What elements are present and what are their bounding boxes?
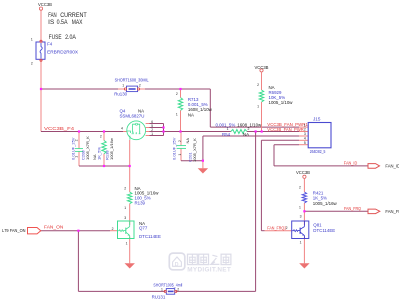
svg-text:5: 5	[304, 141, 306, 145]
svg-text:FAN_FR: FAN_FR	[385, 209, 399, 214]
svg-text:IS: IS	[48, 20, 54, 26]
svg-text:MAX: MAX	[72, 20, 83, 26]
svg-text:2: 2	[299, 185, 301, 189]
svg-text:3: 3	[124, 216, 126, 220]
svg-text:2: 2	[247, 127, 249, 131]
svg-text:VCC3B: VCC3B	[255, 65, 269, 70]
svg-text:R54: R54	[222, 132, 231, 137]
svg-text:VCC3B_FAN_PWR: VCC3B_FAN_PWR	[267, 127, 304, 132]
svg-text:FAN_FRQ: FAN_FRQ	[344, 206, 361, 211]
svg-text:MYDIGIT.NET: MYDIGIT.NET	[187, 267, 231, 274]
svg-text:J15: J15	[313, 117, 321, 122]
svg-text:ERBRD2R00X: ERBRD2R00X	[47, 49, 78, 54]
svg-text:SSML6827U: SSML6827U	[120, 114, 145, 119]
svg-text:1005_1/16w: 1005_1/16w	[313, 201, 338, 206]
svg-text:F4: F4	[47, 42, 53, 47]
svg-text:CURRENT: CURRENT	[60, 13, 87, 19]
svg-text:R421: R421	[313, 190, 324, 195]
svg-text:1K_5%: 1K_5%	[313, 196, 327, 201]
svg-text:1: 1	[151, 132, 153, 136]
svg-text:1005_X7R_K: 1005_X7R_K	[192, 138, 197, 162]
svg-text:1: 1	[74, 156, 78, 158]
svg-text:R139: R139	[135, 201, 146, 206]
svg-text:2: 2	[176, 92, 178, 96]
svg-text:2: 2	[124, 186, 126, 190]
svg-text:1K_5%: 1K_5%	[97, 147, 102, 160]
svg-text:FAN_ID: FAN_ID	[344, 161, 358, 166]
svg-text:1: 1	[122, 84, 124, 88]
svg-text:SHORT1608_30MIL: SHORT1608_30MIL	[115, 77, 149, 82]
svg-text:RU131: RU131	[152, 295, 166, 300]
svg-text:NA: NA	[188, 112, 194, 117]
svg-text:2: 2	[139, 84, 141, 88]
svg-text:FAN: FAN	[48, 13, 56, 19]
svg-text:1005_1/10w: 1005_1/10w	[269, 100, 294, 105]
svg-text:D: D	[175, 262, 179, 268]
svg-text:1: 1	[257, 105, 259, 109]
svg-text:1005_1/16w: 1005_1/16w	[109, 138, 114, 160]
svg-text:1: 1	[304, 123, 306, 127]
svg-text:DTC114EE: DTC114EE	[139, 234, 161, 239]
svg-text:4: 4	[121, 127, 123, 131]
svg-text:1: 1	[31, 37, 33, 41]
svg-text:VCC3B: VCC3B	[296, 170, 310, 175]
svg-text:1: 1	[124, 206, 126, 210]
svg-text:2: 2	[178, 140, 182, 142]
svg-text:1608_1/10w: 1608_1/10w	[237, 122, 262, 127]
svg-text:3: 3	[300, 215, 302, 219]
svg-text:DTC114EE: DTC114EE	[313, 228, 335, 233]
svg-text:1: 1	[299, 206, 301, 210]
svg-text:2: 2	[100, 135, 102, 139]
svg-text:2: 2	[31, 61, 33, 65]
svg-text:FUSE: FUSE	[49, 35, 62, 41]
svg-text:0.01UF_25V: 0.01UF_25V	[171, 137, 176, 160]
svg-text:2.0A: 2.0A	[65, 35, 76, 41]
svg-text:2: 2	[177, 287, 179, 291]
svg-text:0.001_5%: 0.001_5%	[216, 122, 236, 127]
svg-text:NA: NA	[185, 138, 190, 144]
svg-text:FAN_ON: FAN_ON	[44, 224, 63, 229]
svg-text:VCC3B: VCC3B	[38, 2, 52, 7]
svg-text:1: 1	[227, 127, 229, 131]
svg-text:1: 1	[300, 241, 302, 245]
svg-text:FAN_FRQ2: FAN_FRQ2	[267, 225, 286, 230]
svg-text:1005_X7R_K: 1005_X7R_K	[85, 136, 90, 160]
svg-text:1: 1	[161, 287, 163, 291]
svg-text:264D82_5: 264D82_5	[310, 149, 326, 154]
svg-text:L79 FAN_ON: L79 FAN_ON	[2, 228, 26, 233]
svg-text:2: 2	[257, 83, 259, 87]
svg-text:1: 1	[176, 112, 178, 116]
svg-text:FAN_ID: FAN_ID	[385, 164, 399, 169]
svg-text:1: 1	[126, 242, 128, 246]
svg-text:4: 4	[304, 137, 306, 141]
svg-text:Q77: Q77	[139, 225, 148, 230]
svg-text:VCC3B_F4: VCC3B_F4	[44, 126, 75, 131]
svg-text:2: 2	[304, 128, 306, 132]
svg-text:2: 2	[74, 139, 78, 141]
svg-text:2: 2	[112, 227, 114, 231]
svg-text:2: 2	[286, 226, 288, 230]
svg-text:Ru130: Ru130	[114, 91, 127, 96]
svg-text:NA: NA	[243, 132, 249, 137]
svg-text:1: 1	[178, 154, 182, 156]
svg-text:0.5A: 0.5A	[57, 20, 68, 26]
